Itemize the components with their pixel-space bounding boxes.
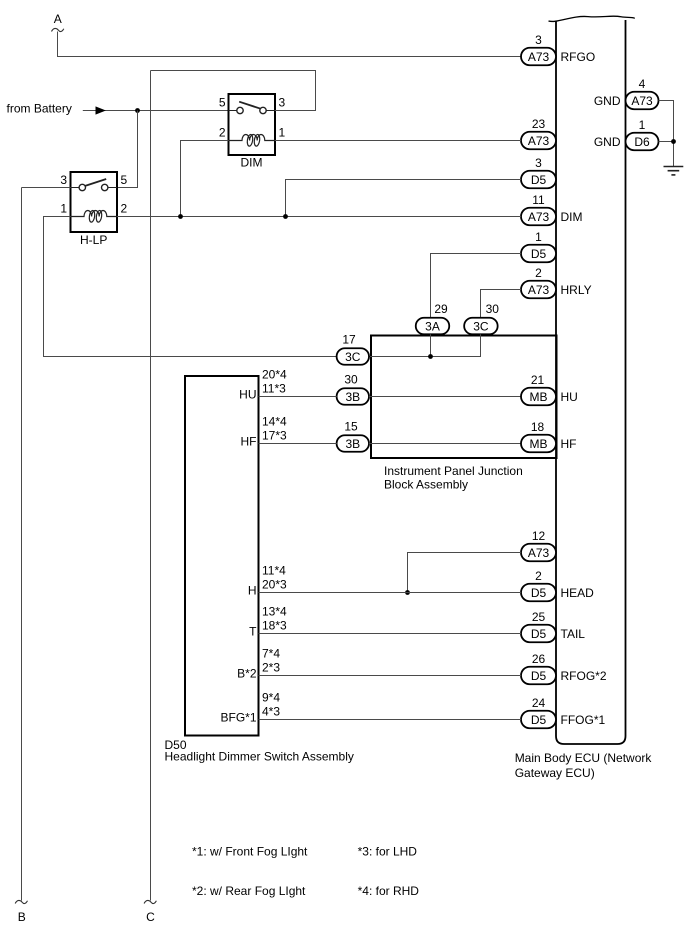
svg-text:13*4: 13*4 (262, 605, 287, 619)
connector A73 pin 2 HRLY (521, 266, 592, 298)
wire D5-1 to connector 3A (431, 254, 522, 319)
svg-text:A73: A73 (528, 283, 550, 297)
svg-text:4: 4 (639, 77, 646, 91)
wire DIM pin 3 to node C riser (151, 71, 316, 111)
svg-text:23: 23 (532, 117, 546, 131)
svg-text:A: A (54, 12, 62, 26)
note *1 (192, 845, 308, 859)
svg-text:*2: w/ Rear Fog LIght: *2: w/ Rear Fog LIght (192, 884, 306, 898)
svg-text:1: 1 (535, 230, 542, 244)
svg-text:24: 24 (532, 696, 546, 710)
connector A73 pin 12 (521, 529, 556, 561)
label Instrument Panel Junction Block Assembly (384, 464, 523, 492)
svg-text:D5: D5 (531, 669, 547, 683)
wire battery branch to H-LP pin 5 (117, 111, 138, 188)
wire A73-2 to connector 3C-30 (481, 290, 522, 319)
D50 pin T (13*4/18*3) (249, 605, 287, 639)
wire 3C lead down and across (369, 334, 481, 356)
connector A73 pin 4 GND (594, 77, 659, 109)
wire from Battery to DIM pin 5 (arrow) (83, 106, 229, 114)
svg-text:A73: A73 (528, 134, 550, 148)
svg-text:3: 3 (535, 156, 542, 170)
svg-text:30: 30 (486, 302, 500, 316)
label D50 (165, 738, 187, 752)
svg-text:H-LP: H-LP (80, 233, 107, 247)
wire node B vertical (21, 188, 23, 901)
svg-text:14*4: 14*4 (262, 415, 287, 429)
net label from Battery (7, 101, 72, 115)
H-LP coil (71, 210, 118, 222)
wire H-LP pin 1 to junction 3C-17 (44, 217, 337, 357)
svg-text:17: 17 (342, 333, 356, 347)
svg-text:A73: A73 (528, 210, 550, 224)
svg-text:*4: for RHD: *4: for RHD (358, 884, 420, 898)
wire 3B-15 to MB-18 (369, 443, 521, 445)
svg-text:1: 1 (60, 202, 67, 216)
svg-text:15: 15 (344, 420, 358, 434)
label Headlight Dimmer Switch Assembly (165, 749, 354, 763)
svg-text:3B: 3B (345, 390, 360, 404)
svg-text:5: 5 (121, 173, 128, 187)
D50 pin HF (14*4/17*3) (241, 415, 288, 449)
wire DIM pin 1 to A73-23 (275, 140, 521, 142)
svg-text:T: T (249, 625, 257, 639)
Main Body ECU (Network Gateway ECU) body (549, 16, 635, 744)
wire D50 H to D5-2 HEAD (259, 592, 522, 594)
svg-text:3: 3 (279, 96, 286, 110)
DIM pin 3 (279, 96, 286, 110)
junction ground node (671, 139, 676, 144)
wire node A to RFGO (58, 32, 522, 57)
wire A73-12 branch to HEAD line (408, 553, 522, 593)
label DIM (241, 156, 263, 170)
svg-text:12: 12 (532, 529, 546, 543)
wire node C vertical (150, 71, 152, 901)
svg-text:11: 11 (532, 193, 545, 207)
connector MB pin 21 HU (521, 373, 578, 405)
H-LP pin 1 (60, 202, 67, 216)
connector 3B pin 30 (337, 373, 369, 405)
svg-text:Instrument Panel Junction: Instrument Panel Junction (384, 464, 523, 478)
connector A73 pin 11 DIM (521, 193, 583, 225)
svg-text:HU: HU (239, 388, 256, 402)
svg-text:DIM: DIM (561, 210, 583, 224)
svg-text:*1: w/ Front Fog LIght: *1: w/ Front Fog LIght (192, 845, 308, 859)
DIM switch contact (229, 102, 276, 114)
svg-text:TAIL: TAIL (561, 627, 586, 641)
Instrument Panel Junction Block Assembly body (371, 336, 557, 459)
label H-LP (80, 233, 107, 247)
junction DIM pin 2 / DIM line (178, 214, 183, 219)
svg-text:20*3: 20*3 (262, 577, 287, 591)
svg-text:26: 26 (532, 652, 546, 666)
svg-text:20*4: 20*4 (262, 368, 287, 382)
svg-text:1: 1 (639, 118, 646, 132)
svg-text:18: 18 (531, 420, 545, 434)
svg-text:GND: GND (594, 94, 621, 108)
svg-text:2: 2 (121, 202, 128, 216)
connector D5 pin 26 RFOG*2 (521, 652, 607, 684)
wire 3A lead down (430, 334, 432, 356)
svg-text:11*3: 11*3 (262, 381, 286, 395)
wire D50 B*2 to D5-26 RFOG*2 (259, 675, 522, 677)
svg-text:4*3: 4*3 (262, 704, 280, 718)
svg-text:A73: A73 (631, 94, 653, 108)
node A (52, 12, 64, 31)
svg-text:*3: for LHD: *3: for LHD (358, 845, 418, 859)
svg-text:18*3: 18*3 (262, 618, 287, 632)
wire D6-1 to ground (659, 142, 674, 167)
svg-text:3A: 3A (425, 319, 440, 333)
H-LP pin 2 (121, 202, 128, 216)
connector 3A pin 29 (416, 302, 450, 334)
svg-text:from Battery: from Battery (7, 101, 72, 115)
label Main Body ECU (515, 751, 653, 780)
H-LP pin 5 (121, 173, 128, 187)
svg-text:Main Body ECU (Network: Main Body ECU (Network (515, 751, 653, 765)
ground symbol (664, 167, 684, 175)
wire D50 T to D5-25 TAIL (259, 633, 522, 635)
svg-text:1: 1 (279, 126, 286, 140)
svg-text:HU: HU (561, 390, 578, 404)
D50 pin BFG*1 (9*4/4*3) (220, 691, 280, 725)
DIM pin 5 (219, 96, 226, 110)
junction A73-12 / HEAD line (405, 590, 410, 595)
svg-text:7*4: 7*4 (262, 647, 280, 661)
connector A73 pin 3 RFGO (521, 33, 595, 65)
node B (15, 900, 27, 924)
connector 3C pin 17 (337, 333, 369, 365)
D50 pin HU (20*4/11*3) (239, 368, 287, 402)
svg-text:3: 3 (60, 173, 67, 187)
junction battery / H-LP branch (135, 108, 140, 113)
svg-text:3: 3 (535, 33, 542, 47)
relay H-LP (60, 172, 127, 247)
note *3 (358, 845, 418, 859)
svg-text:21: 21 (531, 373, 545, 387)
svg-text:2: 2 (535, 266, 542, 280)
connector MB pin 18 HF (521, 420, 577, 452)
svg-text:HEAD: HEAD (561, 586, 595, 600)
svg-text:2*3: 2*3 (262, 660, 280, 674)
wire D50 HF to 3B-15 (259, 443, 337, 445)
svg-text:RFOG*2: RFOG*2 (561, 669, 607, 683)
svg-text:Gateway ECU): Gateway ECU) (515, 766, 595, 780)
connector D5 pin 2 HEAD (521, 569, 594, 601)
junction 3A / 3C17 net (428, 354, 433, 359)
connector D5 pin 3 (521, 156, 556, 188)
svg-text:HF: HF (561, 437, 577, 451)
svg-text:D5: D5 (531, 627, 547, 641)
svg-text:2: 2 (219, 126, 226, 140)
svg-text:MB: MB (530, 437, 548, 451)
connector D6 pin 1 GND (594, 118, 659, 150)
connector 3C pin 30 (464, 302, 499, 334)
wire D50 BFG*1 to D5-24 FFOG*1 (259, 719, 522, 721)
svg-text:3C: 3C (473, 319, 489, 333)
svg-text:11*4: 11*4 (262, 564, 286, 578)
wire H-LP pin 3 to node B (22, 187, 71, 189)
note *4 (358, 884, 420, 898)
note *2 (192, 884, 306, 898)
svg-text:MB: MB (530, 390, 548, 404)
svg-text:D5: D5 (531, 173, 547, 187)
svg-text:A73: A73 (528, 50, 550, 64)
svg-text:25: 25 (532, 610, 546, 624)
H-LP switch contact (71, 179, 118, 191)
svg-text:29: 29 (434, 302, 448, 316)
svg-text:RFGO: RFGO (561, 50, 596, 64)
svg-text:HF: HF (241, 435, 257, 449)
wire D50 HU to 3B-30 (259, 396, 337, 398)
connector A73 pin 23 (521, 117, 556, 149)
svg-text:3B: 3B (345, 437, 360, 451)
switch assembly D50 body (185, 376, 259, 736)
svg-text:D6: D6 (634, 135, 650, 149)
svg-text:Headlight Dimmer Switch Assemb: Headlight Dimmer Switch Assembly (165, 749, 354, 763)
svg-text:17*3: 17*3 (262, 428, 287, 442)
svg-text:30: 30 (344, 373, 358, 387)
H-LP pin 3 (60, 173, 67, 187)
connector D5 pin 24 FFOG*1 (521, 696, 605, 728)
connector D5 pin 1 (521, 230, 556, 262)
svg-text:A73: A73 (528, 546, 550, 560)
wire 3B-30 to MB-21 (369, 396, 521, 398)
svg-text:9*4: 9*4 (262, 691, 280, 705)
svg-text:BFG*1: BFG*1 (220, 711, 256, 725)
junction D5-3 / DIM line (283, 214, 288, 219)
svg-text:B*2: B*2 (237, 667, 257, 681)
wire DIM pin 2 branch (181, 141, 229, 217)
D50 pin H (11*4/20*3) (248, 564, 287, 598)
svg-text:DIM: DIM (241, 156, 263, 170)
svg-text:D5: D5 (531, 586, 547, 600)
DIM pin 2 (219, 126, 226, 140)
svg-text:D5: D5 (531, 247, 547, 261)
wire A73-4 to ground (659, 101, 674, 142)
svg-text:HRLY: HRLY (561, 283, 592, 297)
wire D5-3 branch to DIM line (286, 180, 522, 217)
svg-text:Block Assembly: Block Assembly (384, 478, 468, 492)
svg-text:5: 5 (219, 96, 226, 110)
node C (144, 900, 156, 924)
svg-text:B: B (18, 910, 26, 924)
wire H-LP pin 2 to A73-11 DIM (117, 216, 521, 218)
relay DIM (219, 94, 286, 170)
svg-text:H: H (248, 584, 257, 598)
connector 3B pin 15 (337, 420, 369, 452)
svg-text:2: 2 (535, 569, 542, 583)
DIM coil (229, 134, 276, 146)
svg-text:3C: 3C (345, 350, 361, 364)
svg-text:D5: D5 (531, 713, 547, 727)
svg-text:C: C (146, 910, 155, 924)
connector D5 pin 25 TAIL (521, 610, 585, 642)
svg-text:FFOG*1: FFOG*1 (561, 713, 606, 727)
svg-text:GND: GND (594, 135, 621, 149)
D50 pin B*2 (7*4/2*3) (237, 647, 280, 681)
DIM pin 1 (279, 126, 286, 140)
